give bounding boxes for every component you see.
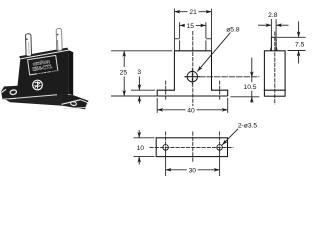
dimension 40 — [157, 98, 228, 114]
svg-text:7.5: 7.5 — [295, 42, 305, 49]
front view: hole horizontal centerline — [184, 76, 259, 78]
product illustration: right terminal — [56, 29, 62, 51]
svg-text:2.8: 2.8 — [268, 12, 278, 19]
product illustration: top edge highlight — [20, 50, 68, 59]
product illustration: base shadow strip — [3, 93, 69, 106]
leader 2-ø3.5 — [222, 123, 257, 145]
svg-text:10: 10 — [137, 145, 145, 152]
product illustration: right flange — [62, 94, 89, 109]
svg-text:ø5.8: ø5.8 — [226, 26, 240, 33]
svg-text:40: 40 — [187, 107, 195, 114]
front view: center hole circle — [185, 69, 200, 85]
front view: left mounting hole centerline — [165, 81, 167, 101]
product illustration: label — [28, 55, 59, 75]
dimension 3 — [131, 69, 155, 103]
dimension 25 — [111, 51, 172, 96]
dimension 2.8 — [258, 12, 289, 37]
front view: body outline — [157, 51, 228, 96]
svg-text:15: 15 — [187, 23, 195, 30]
front view: right mounting hole centerline — [219, 81, 221, 101]
dimension 21 — [174, 8, 211, 51]
product illustration: body front face — [16, 50, 73, 98]
side view: terminal — [270, 37, 277, 51]
side view: body outline — [264, 51, 285, 96]
product illustration: top face — [19, 48, 68, 59]
bottom view: vertical centerline — [192, 132, 194, 163]
bottom view: right hole — [217, 132, 223, 153]
product illustration: left terminal — [26, 34, 32, 57]
dimension 30 — [166, 151, 220, 177]
svg-text:10.5: 10.5 — [243, 84, 256, 91]
side view: centerline — [274, 32, 276, 105]
front view: vertical centerline — [192, 31, 194, 113]
front view: right terminal — [206, 38, 212, 40]
bottom view: horizontal centerline — [150, 146, 234, 148]
product illustration: round logo — [33, 80, 43, 90]
svg-text:25: 25 — [120, 70, 128, 77]
dimension 10.5 — [231, 58, 260, 103]
svg-text:2-ø3.5: 2-ø3.5 — [238, 123, 258, 130]
svg-text:30: 30 — [189, 167, 197, 174]
leader ø5.8 — [197, 26, 240, 71]
product illustration: left flange — [1, 86, 21, 100]
dimension 10 — [134, 130, 155, 165]
front view: left terminal — [174, 38, 179, 40]
bottom view: outline — [156, 138, 227, 157]
svg-text:21: 21 — [189, 9, 197, 16]
product illustration: base bottom highlight — [10, 95, 58, 99]
svg-text:3: 3 — [137, 69, 141, 76]
side view: flange line — [264, 89, 286, 91]
dimension 7.5 — [277, 22, 306, 64]
dimension 15 — [180, 22, 206, 51]
bottom view: left hole — [163, 132, 169, 153]
